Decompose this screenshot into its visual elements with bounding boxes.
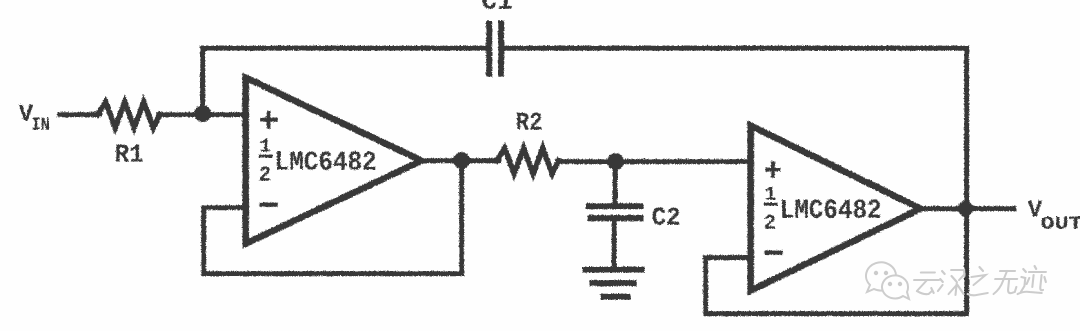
resistor R1 xyxy=(97,102,159,128)
wire xyxy=(200,48,205,114)
glyph 深 xyxy=(937,270,966,295)
wire xyxy=(203,271,461,276)
label VOUT xyxy=(1027,197,1080,234)
wire xyxy=(421,158,498,163)
watermark text 云深之无迹 (drawn strokes) xyxy=(912,266,1047,295)
svg-text:C1: C1 xyxy=(481,0,512,16)
glyph 无 xyxy=(994,271,1018,294)
glyph 迹 xyxy=(1018,266,1048,294)
label VIN xyxy=(18,101,49,135)
svg-text:1: 1 xyxy=(764,183,775,205)
op-amp U1 plus input xyxy=(262,112,276,127)
wire xyxy=(202,45,486,50)
wire xyxy=(557,159,751,164)
wire xyxy=(705,311,966,316)
op-amp U1 minus input xyxy=(261,202,275,206)
capacitor C1 xyxy=(489,23,501,73)
svg-text:LMC6482: LMC6482 xyxy=(779,196,881,226)
wire xyxy=(158,112,246,117)
wire xyxy=(611,219,616,266)
wire xyxy=(503,45,966,50)
svg-text:C2: C2 xyxy=(651,202,680,232)
glyph 云 xyxy=(913,273,940,295)
svg-text:R2: R2 xyxy=(515,107,542,137)
wire xyxy=(203,205,246,210)
glyph 之 xyxy=(967,267,990,295)
capacitor C2 xyxy=(588,206,640,218)
node C (junction dot) xyxy=(607,153,624,170)
node B (junction dot) xyxy=(453,152,470,169)
op-amp U1 half label xyxy=(258,135,272,187)
wire xyxy=(59,112,99,117)
wire xyxy=(703,257,708,313)
node D (output diamond) xyxy=(955,198,976,219)
wire xyxy=(459,160,464,273)
svg-text:LMC6482: LMC6482 xyxy=(274,148,376,178)
wire xyxy=(705,255,751,260)
ground xyxy=(585,269,641,296)
op-amp U2 plus input xyxy=(767,163,778,176)
wire xyxy=(201,207,206,273)
op-amp U2 xyxy=(750,125,920,290)
svg-text:1: 1 xyxy=(259,135,270,157)
node A (junction dot) xyxy=(194,105,211,122)
svg-text:R1: R1 xyxy=(114,139,143,169)
svg-text:IN: IN xyxy=(31,115,49,135)
wire xyxy=(920,206,1013,211)
wire xyxy=(964,48,969,314)
svg-text:OUT: OUT xyxy=(1040,214,1080,234)
svg-text:2: 2 xyxy=(763,212,776,235)
op-amp U2 half label xyxy=(763,183,777,235)
resistor R2 xyxy=(496,148,558,174)
op-amp U1 xyxy=(245,77,421,243)
watermark logo (chat bubbles) xyxy=(866,262,909,299)
wire xyxy=(612,161,617,203)
svg-text:2: 2 xyxy=(258,164,271,187)
op-amp U2 minus input xyxy=(766,250,780,254)
